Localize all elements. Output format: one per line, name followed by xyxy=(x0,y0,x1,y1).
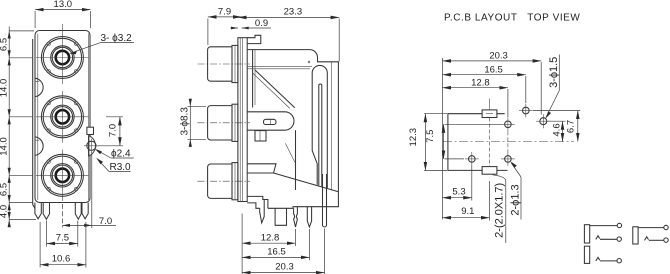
svg-text:12.8: 12.8 xyxy=(471,78,490,89)
svg-text:7.5: 7.5 xyxy=(56,232,69,243)
PCB LAYOUT VIEW xyxy=(408,13,580,244)
svg-text:4.0: 4.0 xyxy=(0,205,10,218)
jack cylinder 2 side xyxy=(208,106,232,140)
symbol A switch bottom xyxy=(596,257,600,261)
wedge diagonal xyxy=(274,173,339,192)
symbol A switch mid xyxy=(596,236,600,240)
dim 7.9 xyxy=(208,6,242,45)
semicircle detail between jack1-2 xyxy=(35,78,43,96)
label 3-phi3.2 with leader xyxy=(69,33,134,54)
dim 7.0 bottom xyxy=(62,153,116,229)
label R3.0 with leader xyxy=(96,158,131,173)
dim 20.3 pcb xyxy=(442,51,541,115)
svg-text:16.5: 16.5 xyxy=(267,247,286,258)
symbol B tip line xyxy=(638,227,664,229)
label 2-phi1.3 xyxy=(510,161,522,219)
R3.0 bump arc xyxy=(89,136,96,156)
svg-text:10.6: 10.6 xyxy=(52,254,71,265)
semicircle detail between jack2-3 xyxy=(35,137,43,155)
svg-text:20.3: 20.3 xyxy=(275,262,294,273)
dim 12.3 pcb xyxy=(408,114,447,171)
jack symbol A contact bar 1 xyxy=(584,225,589,243)
svg-text:14.0: 14.0 xyxy=(0,137,10,156)
slot top 2.0x1.7 xyxy=(482,110,497,118)
dim 7.0 vertical (hole) xyxy=(98,117,123,146)
dim 20.3 side xyxy=(242,229,324,274)
centerline jack2 xyxy=(198,122,251,124)
slot in bar xyxy=(319,84,322,186)
svg-text:2-(2.0X1.7): 2-(2.0X1.7) xyxy=(494,183,506,238)
jack J2 circles xyxy=(36,91,89,143)
hole H2 top xyxy=(519,104,533,118)
body inner lip left xyxy=(37,34,39,201)
small rect notch above bump xyxy=(87,127,94,134)
centerline jack1 xyxy=(198,63,251,65)
body outline side xyxy=(247,50,338,209)
dim 13.0 xyxy=(35,0,90,28)
dashed vertical through H1-H5 xyxy=(507,131,509,152)
SIDE VIEW xyxy=(180,6,340,274)
svg-text:12.8: 12.8 xyxy=(261,232,280,243)
svg-text:12.3: 12.3 xyxy=(408,128,419,147)
pin S5 side xyxy=(323,174,327,227)
pin S1 side xyxy=(260,200,265,223)
symbol A tip line xyxy=(590,225,618,227)
ejector mark dot xyxy=(308,61,310,63)
bottom foot xyxy=(247,196,268,208)
mounting hole o2.4 xyxy=(87,141,96,150)
mounting plate xyxy=(238,38,247,202)
lower band detail xyxy=(247,164,276,173)
pin P4 front xyxy=(82,203,88,219)
svg-text:7.0: 7.0 xyxy=(108,124,119,137)
svg-text:7.5: 7.5 xyxy=(425,130,436,143)
svg-text:9.1: 9.1 xyxy=(461,206,474,217)
collar 2 xyxy=(232,104,238,141)
lower diagonal detail xyxy=(285,143,295,162)
svg-text:6.7: 6.7 xyxy=(566,120,577,133)
jack symbol A contact bar 2 xyxy=(584,246,589,263)
hole H1 mid xyxy=(501,117,515,131)
symbol B tip terminal xyxy=(664,225,668,229)
left dim chain 6.5/14.0/14.0/6.5/4.0 xyxy=(0,27,36,228)
dim 12.8 side xyxy=(242,214,295,274)
pin P2 front xyxy=(43,203,49,220)
left side tab xyxy=(33,39,35,209)
diagonal brace xyxy=(255,70,295,108)
svg-text:20.3: 20.3 xyxy=(489,51,508,62)
top tab with notch xyxy=(247,35,261,43)
svg-text:7.9: 7.9 xyxy=(218,6,231,17)
svg-text:7.0: 7.0 xyxy=(99,216,112,227)
slot bottom 2.0x1.7 xyxy=(482,167,497,175)
dim 23.3 xyxy=(238,6,339,61)
svg-text:6.5: 6.5 xyxy=(0,183,10,196)
svg-text:13.0: 13.0 xyxy=(54,0,73,10)
center dashed line below body xyxy=(61,204,63,228)
symbol B switch xyxy=(645,237,649,241)
label 3-phi1.5 xyxy=(545,55,560,119)
jack cylinder 1 side xyxy=(208,47,232,81)
collar 1 xyxy=(232,45,238,82)
hole H4 bottom-left xyxy=(465,152,479,166)
jack J1 circles xyxy=(36,24,89,84)
internal vertical pair xyxy=(252,50,254,108)
svg-text:3-ϕ1.5: 3-ϕ1.5 xyxy=(548,57,560,88)
pin P1 front xyxy=(35,203,41,219)
part outline top edge xyxy=(448,114,508,171)
dim 4.6 pcb xyxy=(548,121,566,141)
pin P3 front xyxy=(75,203,81,220)
label 2-(2.0X1.7) xyxy=(493,175,506,243)
block below arm xyxy=(255,131,266,141)
pin S4 side xyxy=(307,207,311,227)
vertical from arm end xyxy=(295,130,297,190)
label phi2.4 with leader xyxy=(95,149,134,160)
dim 5.3 pcb xyxy=(442,166,471,201)
collar 3 xyxy=(232,163,238,200)
dim 7.5 pcb xyxy=(425,124,501,159)
middle arm with rounded end xyxy=(247,112,294,130)
svg-text:4.6: 4.6 xyxy=(552,123,563,136)
pin S3 squiggle xyxy=(294,207,298,227)
svg-text:23.3: 23.3 xyxy=(284,6,303,17)
dim 16.5 pcb xyxy=(442,64,525,103)
symbol A tip terminal xyxy=(617,223,621,227)
main horizontal centerline xyxy=(443,141,574,143)
dim 10.6 bottom xyxy=(40,222,86,268)
rounded bar right xyxy=(312,65,327,188)
svg-text:6.5: 6.5 xyxy=(0,38,10,51)
pin block S2 xyxy=(275,208,286,225)
dim 3-phi8.3 xyxy=(180,99,206,147)
dim 6.7 pcb xyxy=(533,111,580,142)
svg-text:2-ϕ1.3: 2-ϕ1.3 xyxy=(510,184,522,215)
SCHEMATIC SYMBOLS xyxy=(584,223,668,263)
svg-text:14.0: 14.0 xyxy=(0,79,10,98)
dim 9.1 pcb xyxy=(442,181,489,221)
svg-text:3-ϕ8.3: 3-ϕ8.3 xyxy=(180,107,191,136)
FRONT VIEW xyxy=(0,0,134,267)
slot in arm xyxy=(264,119,277,124)
dim 16.5 side xyxy=(242,229,309,260)
svg-text:16.5: 16.5 xyxy=(484,64,503,75)
jack cylinder 3 side xyxy=(208,164,232,198)
dashed line between slots xyxy=(489,118,491,167)
svg-text:P.C.B LAYOUT TOP VIEW: P.C.B LAYOUT TOP VIEW xyxy=(444,13,580,24)
internal shelf lines xyxy=(247,65,312,67)
centerline jack3 xyxy=(198,180,251,182)
dim 12.8 pcb xyxy=(442,78,508,118)
connector body front xyxy=(35,31,90,203)
jack J3 circles xyxy=(36,150,89,202)
hole H3 right xyxy=(536,114,550,128)
dim 0.9 xyxy=(231,18,272,30)
body inner lip right xyxy=(87,34,89,201)
svg-text:0.9: 0.9 xyxy=(255,18,268,29)
hole H5 bottom-mid xyxy=(501,152,515,166)
left reference extension line xyxy=(441,58,443,220)
dim 7.5 bottom xyxy=(47,221,78,247)
jack symbol B contact bar xyxy=(633,227,638,244)
svg-text:5.3: 5.3 xyxy=(452,187,465,198)
